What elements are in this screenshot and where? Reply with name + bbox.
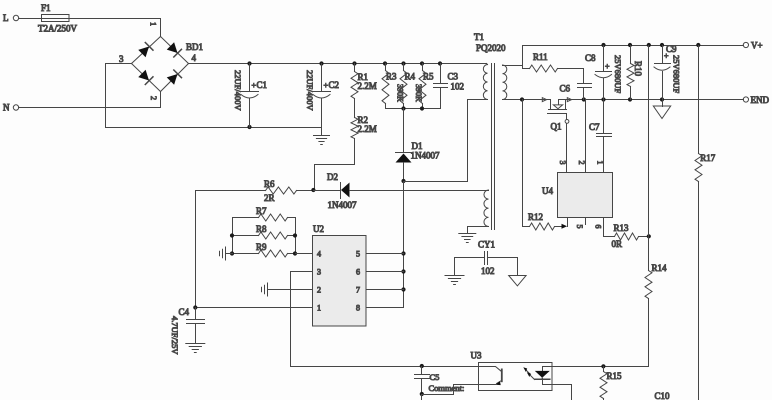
- IC U4: [542, 161, 613, 229]
- svg-text:C2: C2: [329, 80, 340, 90]
- capacitor C1: [233, 64, 267, 128]
- wire bottom return bus: [106, 125, 322, 129]
- wire V+ bus: [523, 43, 744, 47]
- svg-text:R12: R12: [528, 212, 543, 222]
- mosfet Q1: [542, 98, 571, 173]
- wire R7R9 right bus: [293, 218, 297, 256]
- svg-text:3: 3: [317, 268, 321, 277]
- svg-text:T1: T1: [474, 32, 484, 42]
- svg-text:R7: R7: [256, 206, 267, 216]
- svg-text:U4: U4: [542, 186, 553, 196]
- svg-text:R13: R13: [614, 223, 630, 233]
- terminal N: [3, 103, 19, 113]
- svg-text:CY1: CY1: [478, 240, 495, 250]
- wire U4 pin5 stub: [585, 218, 587, 225]
- wire drain to U2 pins: [401, 182, 405, 308]
- svg-text:R11: R11: [533, 52, 548, 62]
- svg-text:N: N: [3, 103, 10, 113]
- svg-text:PQ2020: PQ2020: [476, 43, 506, 53]
- wire B+ bus: [189, 61, 487, 65]
- wire R17 line top: [698, 46, 700, 154]
- svg-text:END: END: [751, 95, 770, 105]
- transformer aux winding: [484, 190, 489, 227]
- capacitor CY1: [455, 240, 518, 277]
- diode D1: [396, 109, 440, 182]
- svg-text:U3: U3: [471, 351, 482, 361]
- svg-text:2: 2: [577, 161, 586, 165]
- svg-text:R4: R4: [405, 72, 416, 82]
- IC U2: [313, 224, 367, 326]
- svg-text:1N4007: 1N4007: [411, 151, 440, 161]
- wire U4 pin2 to END bus: [585, 100, 587, 173]
- wire U2 pin3 to feedback: [291, 272, 479, 367]
- wire R6 left leg: [195, 191, 197, 308]
- svg-text:+: +: [664, 52, 669, 61]
- ground at C2: [314, 128, 330, 145]
- svg-text:390K: 390K: [414, 84, 423, 102]
- svg-text:1N4007: 1N4007: [328, 200, 357, 210]
- optocoupler U3: [471, 351, 553, 391]
- resistor R12: [523, 100, 568, 231]
- svg-text:22UF/400V: 22UF/400V: [233, 70, 243, 111]
- resistor R14: [645, 263, 667, 367]
- terminal END: [743, 95, 769, 105]
- wire C5 to U3 emitter: [422, 385, 479, 395]
- ground at R9: [220, 247, 233, 260]
- diode D2 with wire to aux winding: [314, 172, 489, 210]
- svg-text:T2A/250V: T2A/250V: [38, 24, 77, 34]
- wire LED cathode out: [553, 385, 572, 400]
- resistor R1: [351, 64, 377, 118]
- bridge rectifier BD1: [119, 37, 203, 92]
- resistor R17: [695, 153, 716, 400]
- svg-text:3: 3: [119, 54, 124, 64]
- wire fuse to bridge pin1: [70, 19, 161, 37]
- svg-text:+: +: [605, 62, 610, 71]
- wire N to bridge pin2: [19, 92, 161, 108]
- transformer T1 core: [474, 32, 506, 230]
- capacitor C6: [560, 69, 592, 100]
- resistor R13: [612, 223, 649, 249]
- svg-text:2: 2: [149, 96, 158, 100]
- node R6-D2: [311, 188, 315, 192]
- svg-text:R8: R8: [256, 224, 267, 234]
- svg-text:Q1: Q1: [551, 122, 562, 132]
- svg-text:R5: R5: [423, 72, 434, 82]
- svg-text:L: L: [3, 13, 9, 23]
- svg-text:C6: C6: [560, 84, 571, 94]
- wire V+ drop line: [648, 46, 650, 271]
- svg-text:2.2M: 2.2M: [358, 124, 377, 134]
- wire U2 pin4: [296, 253, 313, 255]
- svg-text:R15: R15: [607, 371, 623, 381]
- wire U3 anode to R15 R14: [553, 364, 649, 368]
- wire aux to ground: [468, 227, 489, 234]
- svg-text:R6: R6: [264, 179, 275, 189]
- svg-text:4.7UF/25V: 4.7UF/25V: [170, 316, 180, 355]
- svg-text:4: 4: [192, 53, 197, 63]
- wire END bus: [503, 97, 744, 101]
- svg-text:4: 4: [317, 250, 321, 259]
- node C5 bottom: [420, 392, 424, 400]
- svg-text:R10: R10: [633, 61, 643, 77]
- transformer secondary winding: [503, 65, 523, 100]
- svg-text:C5: C5: [430, 372, 440, 382]
- resistor R3: [382, 64, 397, 109]
- node R13-R14: [647, 234, 651, 238]
- svg-text:R3: R3: [386, 72, 397, 82]
- svg-text:C3: C3: [448, 72, 459, 82]
- resistor R9: [233, 242, 296, 257]
- wire secondary top to V+: [522, 46, 524, 66]
- ground at C4: [186, 344, 205, 353]
- capacitor C3: [434, 64, 465, 109]
- svg-text:R17: R17: [700, 153, 716, 163]
- capacitor C8: [585, 46, 623, 100]
- earth at CY1 right: [509, 258, 526, 286]
- svg-text:0R: 0R: [612, 239, 623, 249]
- ground at U2 pin2: [262, 283, 268, 296]
- capacitor C7: [589, 100, 612, 173]
- resistor R4: [396, 64, 416, 109]
- svg-text:D2: D2: [327, 172, 338, 182]
- svg-text:7: 7: [356, 286, 360, 295]
- wire U2 right pins: [367, 254, 404, 308]
- svg-text:25V680UF: 25V680UF: [613, 55, 623, 94]
- wire U4 pin bottom-left stub: [567, 218, 569, 227]
- svg-text:D1: D1: [412, 141, 423, 151]
- svg-text:3: 3: [558, 161, 567, 165]
- capacitor C2: [305, 64, 339, 128]
- capacitor C4: [170, 307, 205, 355]
- terminal L: [3, 13, 19, 23]
- wire bridge pin3 to bottom bus: [106, 64, 132, 128]
- svg-text:R14: R14: [652, 263, 668, 273]
- svg-text:R9: R9: [256, 242, 267, 252]
- svg-text:6: 6: [356, 268, 360, 277]
- svg-text:102: 102: [451, 82, 465, 92]
- svg-text:1: 1: [596, 161, 605, 165]
- resistor R7: [233, 206, 296, 221]
- resistor R11: [523, 52, 584, 72]
- svg-text:2: 2: [317, 286, 321, 295]
- capacitor C10 label: [655, 391, 671, 400]
- svg-text:V+: V+: [751, 41, 763, 51]
- node C5 top: [420, 364, 424, 368]
- capacitor C9: [654, 44, 682, 100]
- resistor R5: [414, 64, 434, 109]
- wire U2 pin1 VCC: [193, 305, 312, 309]
- wire R7R9 left bus: [230, 218, 234, 256]
- transformer primary winding: [468, 64, 488, 100]
- wire L to fuse: [19, 18, 42, 20]
- svg-text:8: 8: [356, 304, 360, 313]
- svg-text:C8: C8: [585, 53, 596, 63]
- wire U4 pin6 to R13: [604, 218, 615, 237]
- svg-text:C1: C1: [257, 80, 268, 90]
- fuse F1: [38, 3, 77, 34]
- capacitor C5: [415, 367, 465, 395]
- terminal V+: [743, 41, 762, 51]
- resistor R10: [627, 46, 643, 100]
- svg-text:C7: C7: [589, 122, 600, 132]
- resistor R8: [233, 224, 296, 239]
- earth at END bus: [653, 100, 670, 119]
- resistor R6: [196, 179, 314, 203]
- wire U2 pin2: [268, 289, 313, 291]
- svg-text:5: 5: [356, 250, 360, 259]
- ground at CY1 left: [445, 258, 464, 285]
- wire clamp bottom bus: [386, 106, 441, 110]
- svg-text:2.2M: 2.2M: [358, 81, 377, 91]
- svg-text:25V680UF: 25V680UF: [672, 55, 682, 94]
- svg-text:BD1: BD1: [186, 42, 203, 52]
- svg-text:102: 102: [481, 266, 495, 276]
- svg-text:2R: 2R: [264, 193, 275, 203]
- svg-text:5: 5: [575, 225, 584, 229]
- svg-text:U2: U2: [313, 224, 324, 234]
- resistor R2: [315, 115, 377, 191]
- node drain junction: [401, 179, 405, 183]
- svg-text:1: 1: [317, 304, 321, 313]
- wire D1 to primary bottom: [404, 100, 468, 182]
- svg-text:F1: F1: [41, 3, 51, 13]
- svg-text:390K: 390K: [396, 84, 405, 102]
- svg-text:22UF/400V: 22UF/400V: [305, 70, 315, 111]
- svg-text:6: 6: [594, 225, 603, 229]
- resistor R15: [600, 367, 622, 400]
- svg-text:1: 1: [149, 22, 158, 26]
- svg-text:C10: C10: [655, 391, 671, 400]
- ground at aux winding: [459, 234, 476, 243]
